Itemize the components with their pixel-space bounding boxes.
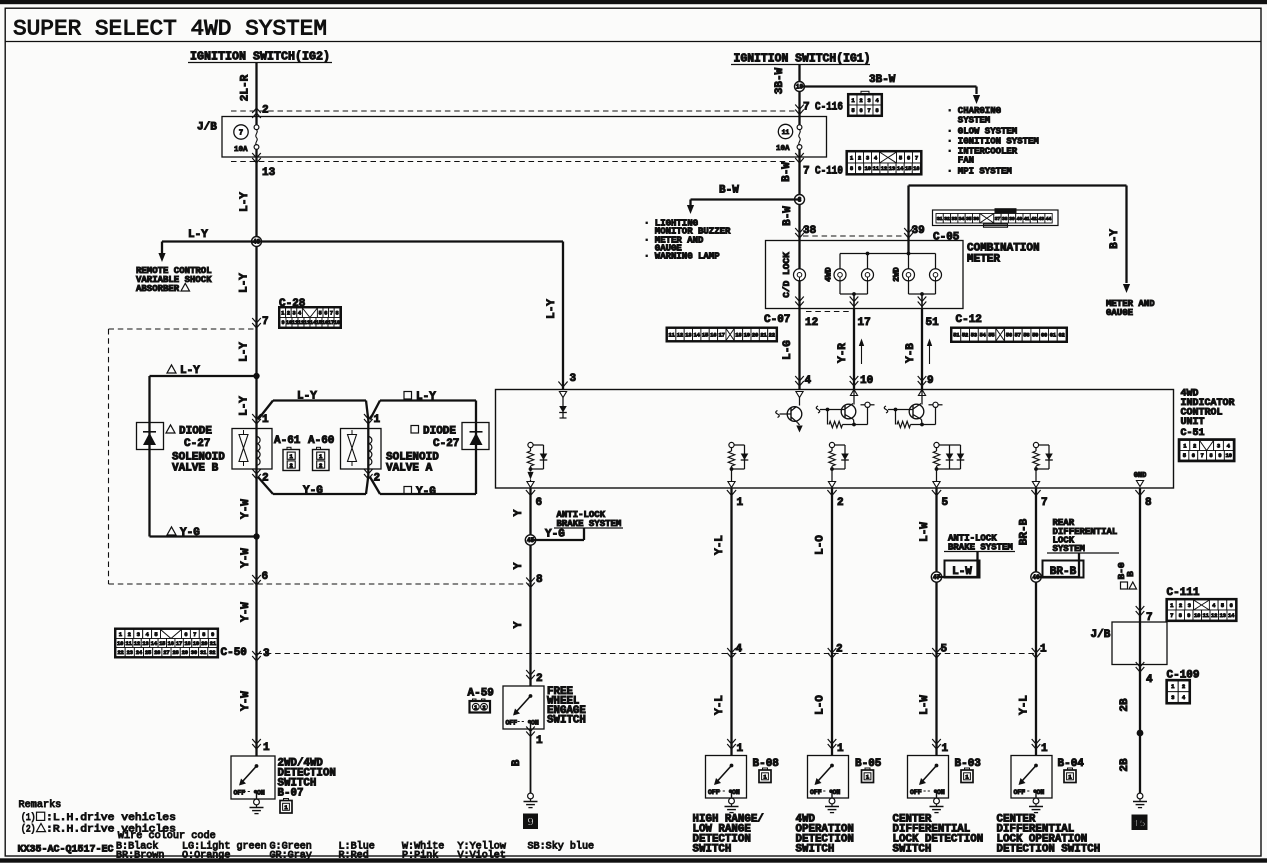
svg-text:28: 28 [173,650,179,656]
svg-text:B: B [1125,571,1136,577]
svg-text:7: 7 [915,155,918,161]
svg-text:SWITCH: SWITCH [796,844,835,856]
svg-text:DETECTION SWITCH: DETECTION SWITCH [997,844,1101,856]
svg-text:13: 13 [685,332,691,338]
svg-text:7: 7 [193,632,196,638]
svg-text:13: 13 [142,641,148,647]
svg-text:51: 51 [926,317,940,329]
svg-text:C-27: C-27 [184,438,210,450]
svg-text:40: 40 [1017,216,1023,222]
svg-text:2WD: 2WD [893,267,902,282]
svg-text:10: 10 [117,641,123,647]
svg-text:17: 17 [176,641,182,647]
svg-text:31: 31 [200,650,206,656]
svg-text:IGNITION SWITCH(IG1): IGNITION SWITCH(IG1) [734,53,871,66]
svg-text:4WD: 4WD [825,267,834,282]
svg-text:32: 32 [209,650,215,656]
svg-text:C-07: C-07 [764,314,790,326]
svg-text:Remarks: Remarks [19,799,62,811]
svg-text:Y-W: Y-W [240,548,252,568]
svg-text:BR-B: BR-B [1050,566,1077,578]
svg-text:2: 2 [536,673,543,685]
svg-text:2: 2 [290,462,293,469]
svg-text:4: 4 [875,98,878,104]
svg-text:9: 9 [1187,613,1190,619]
svg-text:27: 27 [163,650,169,656]
svg-text:16: 16 [710,332,716,338]
svg-text:UNIT: UNIT [1181,417,1205,428]
svg-text::L.H.drive vehicles: :L.H.drive vehicles [46,812,176,824]
svg-text:30: 30 [191,650,197,656]
svg-text:6: 6 [324,311,327,317]
svg-text:VALVE A: VALVE A [386,463,433,475]
svg-text:14: 14 [1228,613,1234,619]
svg-text:31: 31 [937,216,943,222]
svg-text:15: 15 [702,332,708,338]
svg-text:18: 18 [735,332,741,338]
svg-text:13: 13 [262,167,276,179]
svg-text:2L-R: 2L-R [240,74,252,101]
svg-text:4: 4 [146,632,149,638]
svg-text:Y-L: Y-L [714,695,726,715]
svg-text:5: 5 [899,155,902,161]
svg-text:ON: ON [732,789,740,796]
svg-text:10: 10 [1226,453,1232,459]
svg-text:B-Y: B-Y [1109,229,1121,249]
svg-text:A-59: A-59 [468,688,494,700]
svg-text:8: 8 [850,166,853,172]
svg-text:L-G: L-G [782,340,794,360]
svg-text:4: 4 [1212,603,1215,609]
svg-text:18: 18 [334,320,340,326]
svg-text:BR:Brown: BR:Brown [116,851,164,862]
svg-text:2: 2 [319,462,322,469]
svg-text:11: 11 [1203,613,1209,619]
svg-text:4: 4 [298,311,301,317]
svg-text:OFF: OFF [506,720,518,727]
svg-text:L-Y: L-Y [416,391,436,403]
svg-text:1: 1 [737,497,744,509]
svg-text:Y: Y [513,509,525,516]
svg-text:3: 3 [867,98,870,104]
svg-text:33: 33 [951,216,957,222]
svg-text:7: 7 [1201,453,1204,459]
svg-text:L-W: L-W [919,522,931,542]
svg-text:L-W: L-W [919,695,931,715]
svg-text:9: 9 [211,632,214,638]
svg-text:15: 15 [1133,820,1145,831]
svg-text:3: 3 [1171,695,1174,701]
svg-text:4: 4 [1182,695,1185,701]
svg-text:L-Y: L-Y [239,192,251,212]
svg-text:8: 8 [1179,613,1182,619]
svg-text:59: 59 [1032,333,1038,339]
svg-text:44: 44 [1046,216,1052,222]
svg-text:OFF: OFF [810,789,822,796]
svg-text:Y-G: Y-G [180,527,200,539]
svg-text:C-05: C-05 [933,232,960,244]
svg-text:8: 8 [536,574,543,586]
svg-text:20: 20 [752,332,758,338]
svg-text:Y-W: Y-W [240,499,252,519]
svg-text:· GLOW SYSTEM: · GLOW SYSTEM [947,127,1017,137]
svg-text:L-Y: L-Y [188,229,208,241]
svg-text:12: 12 [677,332,683,338]
svg-text:1: 1 [281,311,284,317]
svg-text:11: 11 [126,641,132,647]
svg-text:VALVE B: VALVE B [172,463,219,475]
svg-text:2B: 2B [1119,758,1131,772]
svg-text:16: 16 [168,641,174,647]
svg-text:4: 4 [1146,674,1153,686]
svg-text:7: 7 [239,130,243,138]
svg-text:15: 15 [905,166,911,172]
svg-text:10A: 10A [776,145,790,153]
svg-text:C-111: C-111 [1167,587,1200,599]
svg-text:7: 7 [803,102,810,114]
svg-text:56: 56 [1006,333,1012,339]
svg-text:L-O: L-O [815,695,827,715]
svg-text:25: 25 [145,650,151,656]
svg-text:GR:Gray: GR:Gray [270,851,312,862]
svg-text:11: 11 [782,129,790,136]
svg-text:34: 34 [959,216,965,222]
svg-text:GAUGE: GAUGE [1106,308,1134,318]
svg-text:Y-G: Y-G [303,485,323,497]
svg-text:Wire colour code: Wire colour code [118,830,216,842]
svg-text:7: 7 [867,108,870,114]
svg-text:ON: ON [257,790,265,797]
svg-text:SWITCH: SWITCH [547,715,586,727]
svg-text:2: 2 [1193,443,1196,449]
svg-text:8: 8 [1145,497,1152,509]
svg-text:· IGNITION SYSTEM: · IGNITION SYSTEM [947,137,1039,147]
svg-text:19: 19 [744,332,750,338]
svg-text:52: 52 [962,333,968,339]
svg-text:SYSTEM: SYSTEM [958,116,990,126]
svg-text:C-12: C-12 [956,314,982,326]
svg-text:GND: GND [1134,472,1147,480]
svg-text:22: 22 [117,650,123,656]
svg-text:Y: Y [513,621,525,628]
svg-text:57: 57 [1015,333,1021,339]
svg-text:5: 5 [319,311,322,317]
svg-text:62: 62 [1059,333,1065,339]
svg-text:10A: 10A [234,146,248,154]
svg-text:B-W: B-W [719,185,739,197]
svg-text:10: 10 [860,375,873,387]
svg-text:2: 2 [859,98,862,104]
svg-text:OFF: OFF [910,789,922,796]
svg-text:C/D LOCK: C/D LOCK [781,252,792,298]
svg-text:(2): (2) [21,824,36,836]
svg-text:B-07: B-07 [278,788,304,800]
svg-text:C-116: C-116 [815,102,843,114]
svg-text:(1): (1) [21,812,36,824]
svg-text:C-51: C-51 [1181,428,1205,439]
svg-text:6: 6 [262,571,269,583]
svg-text:42: 42 [1031,216,1037,222]
svg-text:12: 12 [805,317,818,329]
svg-text:19: 19 [193,641,199,647]
svg-text:1: 1 [374,414,381,426]
svg-text:SWITCH: SWITCH [893,844,932,856]
svg-text:53: 53 [971,333,977,339]
svg-text:37: 37 [995,216,1001,222]
svg-text:23: 23 [127,650,133,656]
svg-text:10: 10 [865,166,871,172]
svg-text:Y-W: Y-W [240,602,252,622]
svg-text:7: 7 [803,166,810,178]
svg-text:20: 20 [201,641,207,647]
svg-text:14: 14 [897,166,903,172]
svg-text:22: 22 [769,332,775,338]
svg-text:6: 6 [907,155,910,161]
svg-text:7: 7 [262,316,269,328]
svg-text:24: 24 [136,650,142,656]
svg-text:38: 38 [1002,216,1008,222]
svg-text:8: 8 [335,311,338,317]
svg-text:9: 9 [927,375,934,387]
svg-text:43: 43 [1038,216,1044,222]
svg-text:3: 3 [866,155,869,161]
svg-text:2: 2 [128,632,131,638]
svg-text:6: 6 [184,632,187,638]
svg-text:1: 1 [1041,743,1048,755]
svg-text:· WARNING LAMP: · WARNING LAMP [644,252,720,262]
svg-text:3: 3 [570,373,577,385]
svg-text:36: 36 [973,216,979,222]
svg-text:14: 14 [694,332,700,338]
svg-text:3: 3 [1188,603,1191,609]
svg-text:11: 11 [873,166,879,172]
svg-text:2: 2 [836,644,843,656]
svg-text:21: 21 [210,641,216,647]
svg-text:ON: ON [833,789,841,796]
svg-text:7: 7 [330,311,333,317]
svg-text:OFF: OFF [234,790,246,797]
svg-text:L-Y: L-Y [297,391,317,403]
svg-text:4: 4 [736,644,743,656]
svg-text:1: 1 [1171,684,1174,690]
svg-text:8: 8 [202,632,205,638]
svg-text:13: 13 [889,166,895,172]
svg-text:1: 1 [1040,644,1047,656]
svg-text:Y-B: Y-B [905,343,917,363]
svg-text:4: 4 [1227,443,1230,449]
svg-text:2: 2 [837,497,844,509]
svg-text:15: 15 [159,641,165,647]
svg-text:6: 6 [1192,453,1195,459]
svg-text:1: 1 [262,414,269,426]
svg-text:55: 55 [988,333,994,339]
svg-text:B: B [511,759,523,766]
svg-text:58: 58 [1023,333,1029,339]
svg-text:5: 5 [1221,603,1224,609]
svg-text:Y-G: Y-G [545,529,565,541]
svg-text:2: 2 [1182,684,1185,690]
svg-text:DIODE: DIODE [423,426,456,438]
svg-text:9: 9 [858,166,861,172]
svg-text:OFF: OFF [1014,789,1026,796]
svg-text:3B-W: 3B-W [774,67,786,94]
svg-text:L-O: L-O [815,535,827,555]
svg-text:61: 61 [1050,333,1056,339]
svg-text:51: 51 [953,333,959,339]
svg-text:L-Y: L-Y [239,342,251,362]
svg-text:C-27: C-27 [433,438,459,450]
svg-text:16: 16 [913,166,919,172]
svg-text:B-W: B-W [782,206,794,226]
svg-text:FAN: FAN [958,156,974,166]
svg-text:OFF: OFF [708,789,720,796]
svg-text:1: 1 [851,98,854,104]
svg-text:3: 3 [137,632,140,638]
svg-text:L-Y: L-Y [546,299,558,319]
svg-text:12: 12 [1211,613,1217,619]
svg-text:V:Violet: V:Violet [458,850,506,862]
svg-text:60: 60 [1041,333,1047,339]
svg-text:6: 6 [1230,603,1233,609]
svg-text:Y-G: Y-G [416,486,436,498]
svg-text:11: 11 [669,332,675,338]
svg-text:1: 1 [119,632,122,638]
svg-text:L-Y: L-Y [239,396,251,416]
svg-text:Y-W: Y-W [240,691,252,711]
svg-text:9: 9 [1218,453,1221,459]
svg-text:J/B: J/B [197,122,217,134]
svg-text:C-50: C-50 [221,647,247,659]
svg-text:10: 10 [1194,613,1200,619]
svg-text:7: 7 [1041,497,1048,509]
svg-text:· MPI SYSTEM: · MPI SYSTEM [947,167,1012,177]
svg-text:1: 1 [1170,603,1173,609]
svg-text:13: 13 [1220,613,1226,619]
svg-text:1: 1 [942,743,949,755]
svg-text:39: 39 [1009,216,1015,222]
svg-text:Y-R: Y-R [837,343,849,363]
svg-text:17: 17 [719,332,725,338]
svg-text:2: 2 [482,704,485,711]
svg-text:5: 5 [942,497,949,509]
svg-text:2: 2 [1179,603,1182,609]
svg-text:8: 8 [1209,453,1212,459]
svg-text:2: 2 [287,311,290,317]
svg-text:4: 4 [874,155,877,161]
svg-text:7: 7 [1170,613,1173,619]
svg-text:BR-B: BR-B [1019,518,1031,545]
svg-text:5: 5 [154,632,157,638]
svg-text:ON: ON [531,720,539,727]
svg-text:21: 21 [760,332,766,338]
svg-text:2: 2 [858,155,861,161]
svg-text:29: 29 [182,650,188,656]
svg-text:6: 6 [536,497,543,509]
svg-text:39: 39 [912,225,925,237]
svg-text:Y-L: Y-L [714,535,726,555]
svg-text:32: 32 [944,216,950,222]
svg-text:54: 54 [980,333,986,339]
svg-text:IGNITION SWITCH(IG2): IGNITION SWITCH(IG2) [190,51,330,64]
svg-text:ON: ON [937,789,945,796]
svg-text:L-W: L-W [952,566,972,578]
svg-text:1: 1 [1183,443,1186,449]
svg-text:P:Pink: P:Pink [402,850,438,862]
svg-text:R:Red: R:Red [339,850,369,862]
svg-text:L-Y: L-Y [180,365,200,377]
svg-text:1: 1 [737,743,744,755]
svg-text:ABSORBER: ABSORBER [136,284,180,294]
svg-text:38: 38 [803,225,817,237]
svg-text:A-60: A-60 [308,435,334,447]
svg-text:METER: METER [967,254,1000,266]
svg-text:26: 26 [154,650,160,656]
svg-text:12: 12 [134,641,140,647]
svg-text:SB:Sky blue: SB:Sky blue [528,841,595,853]
svg-text:3: 3 [292,311,295,317]
svg-text:ON: ON [1037,789,1045,796]
svg-text:C-110: C-110 [815,166,843,178]
svg-text:KX35-AC-Q1517-EC: KX35-AC-Q1517-EC [18,845,114,856]
svg-text:1: 1 [263,742,270,754]
svg-text:DIODE: DIODE [179,426,212,438]
svg-text:Y-L: Y-L [1019,695,1031,715]
svg-text:1: 1 [536,735,543,747]
svg-text:Y: Y [513,562,525,569]
svg-text:SUPER SELECT 4WD SYSTEM: SUPER SELECT 4WD SYSTEM [13,16,327,42]
svg-text:17: 17 [858,317,871,329]
svg-text:L-Y: L-Y [239,273,251,293]
svg-text:6: 6 [859,108,862,114]
svg-text:2B: 2B [1119,698,1131,712]
svg-text:· CHARGING: · CHARGING [947,106,1001,116]
svg-text:12: 12 [881,166,887,172]
svg-text:4: 4 [805,375,812,387]
svg-text:1: 1 [837,743,844,755]
svg-text:1: 1 [850,155,853,161]
svg-text:5: 5 [941,644,948,656]
svg-text:9: 9 [281,320,284,326]
svg-text:SWITCH: SWITCH [693,844,732,856]
svg-text:3B-W: 3B-W [869,74,896,86]
svg-text:8: 8 [875,108,878,114]
svg-text:41: 41 [1024,216,1030,222]
svg-text:18: 18 [184,641,190,647]
svg-text:B-W: B-W [781,162,793,182]
svg-text:A-61: A-61 [274,435,301,447]
svg-text:5: 5 [1183,453,1186,459]
svg-text:3: 3 [1217,443,1220,449]
svg-text:35: 35 [966,216,972,222]
svg-text:5: 5 [851,108,854,114]
svg-text:O:Orange: O:Orange [182,851,230,862]
svg-text:14: 14 [151,641,157,647]
svg-text:J/B: J/B [1091,629,1111,641]
svg-text:9: 9 [527,816,534,830]
